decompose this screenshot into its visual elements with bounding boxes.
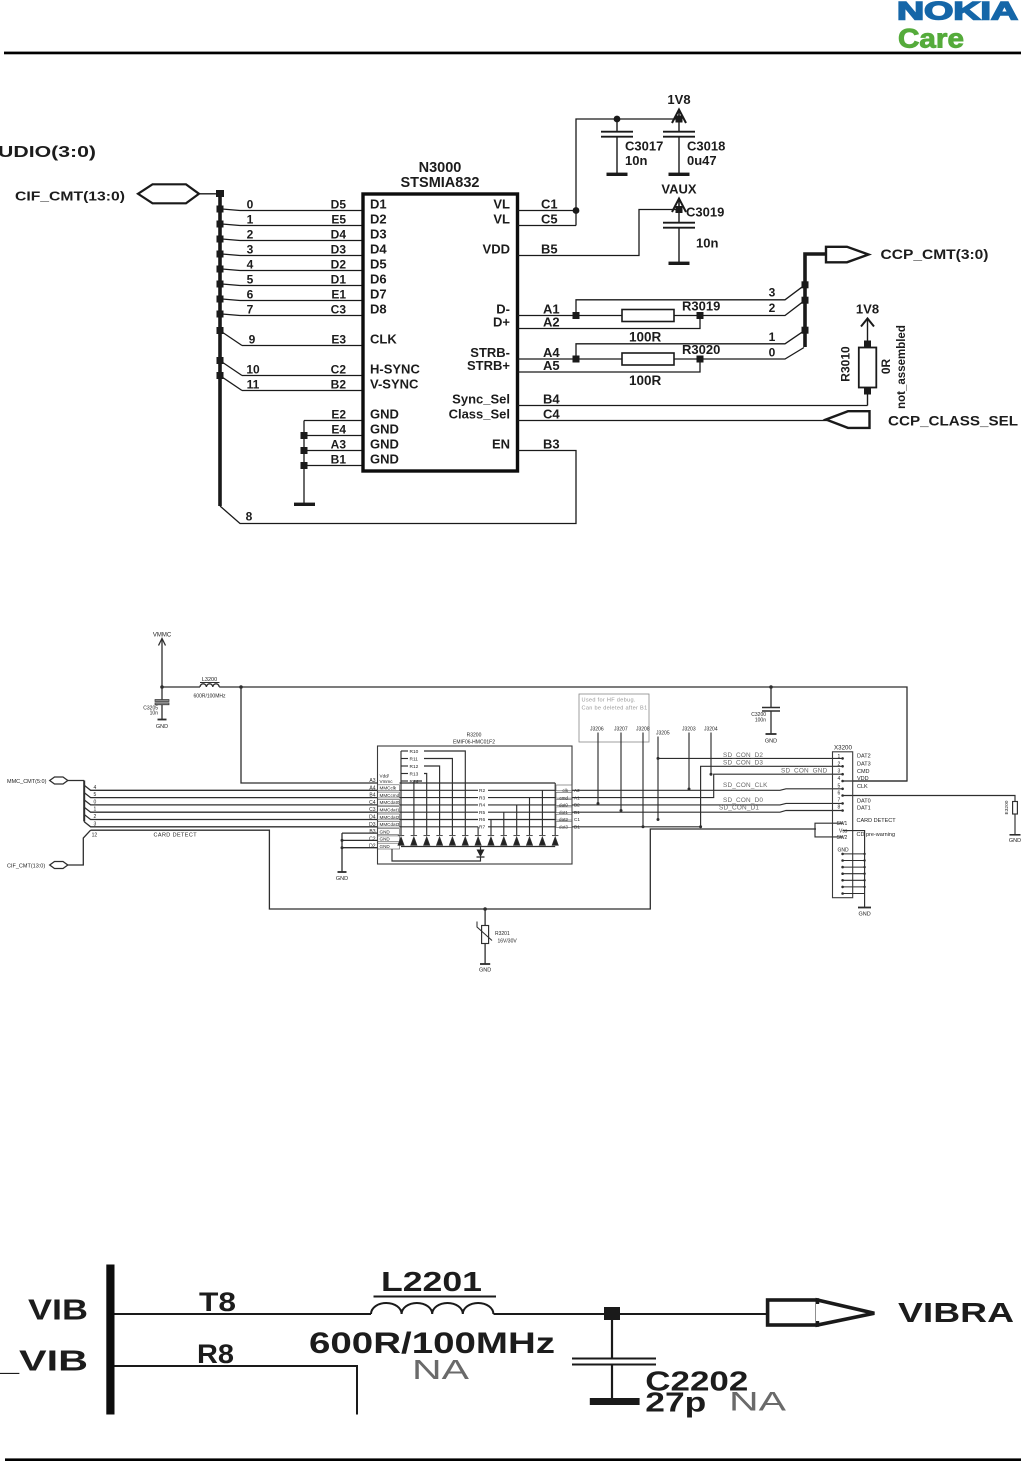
svg-text:8: 8 [246, 510, 253, 524]
node L3200/A3 junction dot [239, 685, 243, 689]
svg-text:CLK: CLK [857, 784, 868, 790]
svg-text:NOKIA: NOKIA [897, 0, 1018, 26]
junction square R3020 right [697, 356, 704, 363]
wire pin4 VDD [843, 780, 907, 782]
wire bus bit3 [576, 285, 805, 316]
svg-text:D3: D3 [370, 227, 387, 242]
wire hexagon to bus [199, 193, 218, 195]
svg-text:D8: D8 [370, 302, 387, 317]
svg-text:R8: R8 [197, 1339, 234, 1369]
svg-text:DAT0: DAT0 [857, 798, 871, 804]
svg-text:0u47: 0u47 [687, 153, 717, 168]
svg-text:6: 6 [838, 791, 841, 797]
svg-text:DAT1: DAT1 [857, 806, 871, 812]
wire pin6 to E3200 [843, 796, 1015, 802]
svg-text:SW1: SW1 [837, 821, 848, 827]
svg-text:CARD DETECT: CARD DETECT [857, 818, 897, 824]
bus top junction [216, 190, 224, 197]
junction squares bits 0-7,9,10,11 on bus [217, 206, 224, 380]
svg-text:C4: C4 [543, 407, 560, 422]
junction squares on GND stub [301, 432, 308, 469]
svg-text:0R: 0R [879, 358, 893, 374]
resistor R3010 (0R not assembled) [839, 325, 909, 409]
svg-text:VIBRA: VIBRA [898, 1297, 1014, 1328]
wire VL C5 to riser [518, 225, 577, 227]
svg-text:0: 0 [247, 198, 254, 212]
capacitor C3200 [751, 685, 780, 744]
wire bit 9 CLK [222, 332, 242, 346]
right BGA pin labels [541, 197, 560, 452]
svg-text:L2201: L2201 [381, 1266, 482, 1297]
svg-text:GND: GND [370, 437, 399, 452]
zener diode to GND rail [392, 847, 485, 862]
svg-text:CARD DETECT: CARD DETECT [154, 833, 198, 839]
svg-text:C3018: C3018 [687, 139, 725, 154]
svg-text:R3200: R3200 [467, 733, 482, 739]
junction square A4 [573, 356, 580, 363]
svg-text:4: 4 [247, 258, 254, 272]
wire bus bit diagonals + horizontals to chip (bits 0-7) [222, 209, 363, 391]
wire SD_CON_GND [572, 774, 843, 797]
wire bus bit1 [576, 330, 805, 359]
wire EN B3 loop to bus bit8 [220, 451, 576, 524]
svg-text:VAUX: VAUX [661, 182, 696, 197]
svg-text:GND: GND [156, 724, 168, 730]
wire hexagon to MMC bus [68, 780, 84, 782]
svg-text:5: 5 [247, 273, 254, 287]
svg-text:R3201: R3201 [495, 931, 510, 937]
svg-text:A4: A4 [369, 785, 375, 791]
svg-text:SD_CON_D2: SD_CON_D2 [723, 752, 763, 759]
svg-text:R3: R3 [479, 795, 485, 801]
svg-text:E3: E3 [331, 333, 346, 347]
svg-text:1: 1 [247, 213, 254, 227]
svg-text:600R/100MHz: 600R/100MHz [194, 694, 226, 700]
wire bus bit2 [700, 300, 805, 315]
svg-text:10n: 10n [696, 236, 718, 251]
svg-text:2: 2 [247, 228, 254, 242]
svg-text:Used for HF debug.: Used for HF debug. [582, 698, 636, 704]
svg-text:Vss: Vss [839, 829, 848, 835]
chip right pin labels [449, 197, 511, 452]
svg-text:R13: R13 [410, 772, 419, 778]
svg-text:VMMC: VMMC [153, 633, 172, 639]
svg-text:1: 1 [769, 330, 776, 344]
wire SD_CON_D3 [572, 766, 843, 827]
inductor L2201 [309, 1266, 555, 1385]
connector CCP_CLASS_SEL input [826, 411, 1018, 428]
svg-text:GND: GND [838, 848, 850, 854]
wire riser to 1V8 rail [576, 119, 679, 226]
svg-text:R2: R2 [479, 788, 485, 794]
chip left pin labels [370, 197, 420, 467]
svg-text:0: 0 [94, 799, 97, 805]
EMIF diode array (13 diodes) [398, 836, 559, 846]
svg-text:B4: B4 [543, 392, 560, 407]
svg-text:CIF_CMT(13:0): CIF_CMT(13:0) [15, 189, 125, 204]
wire STRB+ A5 [518, 359, 701, 372]
svg-text:A3: A3 [369, 778, 375, 784]
svg-text:1: 1 [94, 807, 97, 813]
svg-text:D2: D2 [369, 844, 376, 850]
svg-text:VL: VL [493, 212, 510, 227]
svg-text:R5: R5 [479, 810, 485, 816]
svg-text:5: 5 [94, 792, 97, 798]
wire R8 [115, 1366, 358, 1415]
svg-text:SD_CON_D0: SD_CON_D0 [723, 797, 763, 804]
varistor R3201 [477, 907, 517, 973]
X3200 signal names [857, 753, 871, 811]
svg-text:C3017: C3017 [625, 139, 663, 154]
diode anode bus [401, 846, 555, 848]
svg-text:GND: GND [380, 844, 391, 849]
svg-text:2: 2 [769, 301, 776, 315]
svg-text:STRB+: STRB+ [467, 358, 510, 373]
debug note box [579, 694, 649, 742]
svg-text:STSMIA832: STSMIA832 [401, 175, 480, 191]
EMIF internal R10-R14 ladder [401, 751, 465, 835]
EMIF right pin names [559, 788, 569, 830]
capacitor C2202 [572, 1314, 786, 1418]
GND pin wires E2/E4/A3/B1 [304, 421, 363, 505]
svg-text:27p: 27p [645, 1387, 706, 1418]
svg-text:E3200: E3200 [1004, 800, 1010, 814]
connector X3200 [833, 752, 853, 898]
svg-text:8: 8 [838, 805, 841, 811]
svg-text:VIB: VIB [28, 1295, 88, 1327]
svg-text:H-SYNC: H-SYNC [370, 362, 420, 377]
capacitor C3205 [143, 687, 169, 730]
wire Class_Sel C4 [518, 420, 828, 422]
svg-text:10n: 10n [150, 711, 159, 717]
svg-text:SW2: SW2 [837, 835, 848, 841]
svg-text:J3206: J3206 [590, 727, 604, 733]
svg-text:GND: GND [380, 829, 391, 834]
SD net wires to X3200 [572, 758, 1015, 826]
MMC bus bit labels [94, 785, 97, 828]
svg-text:GND: GND [370, 422, 399, 437]
X3200 pin numbers [838, 754, 841, 811]
wire D+ A2 [518, 316, 701, 329]
svg-text:VDD: VDD [483, 242, 510, 257]
svg-text:CLK: CLK [370, 332, 397, 347]
wire MMC bit 4 (clk) [84, 785, 377, 790]
wire MMC bit 1 (dat1) [84, 807, 377, 812]
svg-text:J3203: J3203 [682, 727, 696, 733]
bus CIF_CMT vertical [218, 192, 222, 506]
svg-text:C1: C1 [574, 817, 580, 822]
svg-text:GND: GND [336, 876, 348, 882]
svg-text:B2: B2 [331, 378, 347, 392]
svg-text:D6: D6 [370, 272, 387, 287]
EMIF GND pins out to left [342, 833, 378, 872]
svg-text:UDIO(3:0): UDIO(3:0) [0, 144, 96, 161]
wire T8 to inductor [115, 1313, 372, 1315]
svg-text:2: 2 [838, 761, 841, 767]
svg-text:6: 6 [247, 288, 254, 302]
junction square R3019 right [697, 312, 704, 319]
svg-text:R7: R7 [479, 825, 485, 831]
svg-text:C2: C2 [331, 363, 347, 377]
svg-text:GND: GND [1009, 838, 1021, 844]
svg-text:100n: 100n [755, 718, 766, 724]
svg-text:D3: D3 [369, 822, 376, 828]
svg-text:3: 3 [769, 286, 776, 300]
header rule [4, 52, 1021, 55]
junction squares on CCP bus [802, 281, 809, 333]
svg-text:GND: GND [765, 739, 777, 745]
svg-text:_VIB: _VIB [0, 1346, 88, 1378]
svg-text:SD_CON_D3: SD_CON_D3 [723, 760, 763, 767]
svg-text:MMCcmd: MMCcmd [380, 793, 400, 798]
svg-text:Sync_Sel: Sync_Sel [452, 392, 510, 407]
resistor R3020 [622, 342, 720, 388]
power VMMC symbol [153, 633, 172, 688]
svg-text:Can be deleted after B1: Can be deleted after B1 [582, 706, 648, 712]
chip R3200 EMIF06-HMC01F2 [378, 746, 573, 864]
svg-text:C4: C4 [369, 800, 376, 806]
svg-text:R11: R11 [410, 757, 419, 763]
svg-text:GND: GND [858, 912, 870, 918]
svg-text:10: 10 [246, 363, 260, 377]
svg-text:R12: R12 [410, 764, 419, 770]
svg-text:GND: GND [380, 837, 391, 842]
svg-text:N3000: N3000 [419, 160, 462, 176]
svg-text:MMCdat0: MMCdat0 [380, 800, 400, 805]
X3200 pin dots [841, 757, 844, 812]
svg-text:VDD: VDD [857, 776, 869, 782]
svg-text:100R: 100R [629, 330, 662, 345]
svg-text:CCP_CMT(3:0): CCP_CMT(3:0) [881, 247, 989, 262]
node VMMC junction dot [160, 685, 164, 689]
svg-text:C5: C5 [541, 212, 558, 227]
svg-text:E1: E1 [331, 288, 346, 302]
wire D- A1 [518, 315, 623, 317]
svg-text:NA: NA [412, 1354, 469, 1385]
svg-text:MMCdat3: MMCdat3 [380, 822, 400, 827]
svg-text:A3: A3 [331, 438, 347, 452]
svg-text:5: 5 [838, 784, 841, 790]
svg-text:D2: D2 [331, 258, 347, 272]
wire Vdd/Vmmc A3 feed [241, 687, 378, 783]
wire SW1-SW2 link [815, 823, 843, 837]
svg-text:E4: E4 [331, 423, 346, 437]
svg-text:V-SYNC: V-SYNC [370, 377, 419, 392]
svg-text:R14: R14 [410, 779, 419, 785]
svg-text:R3019: R3019 [682, 299, 720, 314]
wire VMMC rail [162, 686, 200, 688]
power 1V8 symbol (right) [856, 302, 879, 345]
bus VIB thick bar [106, 1265, 114, 1415]
svg-text:C3: C3 [331, 303, 347, 317]
svg-text:0: 0 [769, 346, 776, 360]
svg-text:9: 9 [249, 333, 256, 347]
wire inductor to VIBRA connector [494, 1313, 769, 1315]
svg-text:3: 3 [247, 243, 254, 257]
bus entry hexagon MMC_CMT [50, 777, 68, 784]
svg-text:D5: D5 [370, 257, 387, 272]
svg-text:A5: A5 [543, 358, 560, 373]
BGA pin name labels left of chip [331, 198, 347, 467]
svg-text:MMCdat1: MMCdat1 [380, 808, 400, 813]
svg-text:CCP_CLASS_SEL: CCP_CLASS_SEL [888, 414, 1018, 429]
svg-text:SD_CON_GND: SD_CON_GND [781, 768, 828, 775]
wire SD_CON_D1 [572, 811, 843, 813]
wire Vss to ground rail [843, 831, 865, 908]
svg-text:X3200: X3200 [834, 745, 852, 752]
EMIF left outside pin ids [369, 778, 376, 850]
capacitor C3017 [601, 119, 663, 176]
svg-text:dat3: dat3 [559, 825, 568, 830]
svg-text:7: 7 [247, 303, 254, 317]
svg-text:C3: C3 [369, 807, 376, 813]
chip N3000 STSMIA832 [363, 194, 518, 471]
svg-text:R10: R10 [410, 749, 419, 755]
bus bit number labels [246, 198, 260, 392]
ground X3200 [858, 907, 871, 909]
svg-text:NA: NA [729, 1387, 786, 1417]
node C3017 junction dot [614, 116, 621, 123]
svg-text:3: 3 [94, 821, 97, 827]
svg-text:GND: GND [479, 968, 491, 974]
svg-text:7: 7 [838, 798, 841, 804]
svg-text:11: 11 [247, 378, 260, 392]
svg-text:B1: B1 [331, 453, 347, 467]
resistor R3019 [622, 299, 720, 345]
wire MMC bit 2 (dat2) [84, 815, 377, 820]
wire SD_CON_D2 [658, 757, 843, 759]
Nokia logo [897, 0, 1018, 54]
svg-text:1: 1 [838, 754, 841, 760]
EMIF left pin names [380, 774, 400, 850]
svg-text:D4: D4 [369, 815, 376, 821]
svg-text:C2: C2 [369, 836, 376, 842]
power VAUX symbol [661, 182, 696, 214]
svg-text:D4: D4 [370, 242, 387, 257]
svg-text:SD_CON_D1: SD_CON_D1 [719, 804, 759, 811]
svg-text:DAT2: DAT2 [857, 753, 871, 759]
svg-text:J3207: J3207 [614, 727, 628, 733]
svg-text:R3010: R3010 [839, 346, 853, 382]
svg-text:D+: D+ [493, 315, 510, 330]
power 1V8 symbol (top) [667, 92, 690, 123]
wire VDD B5 [518, 210, 680, 256]
svg-text:100R: 100R [629, 373, 662, 388]
bus CCP_CMT thick line [805, 254, 826, 347]
svg-text:E5: E5 [331, 213, 346, 227]
connector CCP_CMT(3:0) output [826, 247, 989, 262]
svg-text:B4: B4 [369, 793, 375, 799]
node C2202 junction square [604, 1307, 620, 1320]
EMIF internal row wires [400, 783, 557, 827]
wire STRB- A4 [518, 358, 623, 360]
svg-text:1V8: 1V8 [667, 92, 690, 107]
svg-text:not_assembled: not_assembled [896, 325, 908, 409]
svg-text:C3019: C3019 [686, 205, 724, 220]
EMIF left pin label boxes [378, 785, 400, 849]
wire VL C1 [518, 210, 577, 212]
svg-text:D1: D1 [370, 197, 387, 212]
SW1 / Vss / SW2 [837, 821, 848, 841]
svg-text:R6: R6 [479, 817, 485, 823]
svg-text:4: 4 [94, 785, 97, 791]
svg-text:10n: 10n [625, 153, 647, 168]
svg-text:A2: A2 [543, 315, 560, 330]
svg-text:CIF_CMT(13:0): CIF_CMT(13:0) [7, 864, 45, 870]
wire bit 11 V-SYNC [222, 377, 242, 391]
svg-text:B3: B3 [369, 829, 375, 835]
bus MMC vertical [83, 781, 85, 822]
svg-text:Vdd/: Vdd/ [380, 774, 390, 779]
connector VIBRA output [768, 1297, 1014, 1328]
svg-text:T8: T8 [199, 1287, 236, 1317]
svg-text:D5: D5 [331, 198, 347, 212]
svg-text:Care: Care [898, 24, 964, 54]
svg-text:MMCclk: MMCclk [380, 786, 397, 791]
svg-text:J3204: J3204 [704, 727, 718, 733]
wire MMC bit 5 (cmd) [84, 793, 377, 798]
svg-text:Class_Sel: Class_Sel [449, 407, 510, 422]
junction square A1 [573, 312, 580, 319]
svg-text:CMD: CMD [857, 769, 870, 775]
wire SD_CON_D0 [572, 803, 843, 805]
svg-text:D3: D3 [331, 243, 347, 257]
svg-text:B5: B5 [541, 242, 558, 257]
svg-text:D4: D4 [331, 228, 347, 242]
svg-text:B3: B3 [543, 437, 560, 452]
svg-text:MMC_CMT(5:0): MMC_CMT(5:0) [7, 779, 47, 785]
svg-text:1V8: 1V8 [856, 302, 879, 317]
svg-text:MMCdat2: MMCdat2 [380, 815, 400, 820]
svg-text:R4: R4 [479, 803, 485, 809]
node C1 junction dot [573, 207, 580, 214]
svg-text:C1: C1 [541, 197, 558, 212]
svg-text:EMIF06-HMC01F2: EMIF06-HMC01F2 [453, 740, 495, 746]
svg-text:E2: E2 [331, 408, 346, 422]
svg-text:12: 12 [92, 833, 98, 839]
bus entry hexagon CIF_CMT [50, 862, 68, 869]
svg-text:J3208: J3208 [636, 727, 650, 733]
svg-text:D2: D2 [370, 212, 387, 227]
wire Sync_Sel B4 [518, 405, 868, 407]
svg-text:16V/30V: 16V/30V [498, 939, 518, 945]
svg-text:4: 4 [838, 776, 841, 782]
bus entry hexagon connector [138, 184, 199, 203]
svg-text:DAT3: DAT3 [857, 761, 871, 767]
ground below EMIF GND pins [338, 871, 347, 873]
svg-text:VL: VL [493, 197, 510, 212]
ferrite E3200 [1004, 800, 1021, 844]
ground bar below GND pins [294, 503, 315, 506]
svg-text:2: 2 [94, 814, 97, 820]
wire SD_CON_CLK [572, 789, 843, 791]
svg-text:GND: GND [370, 452, 399, 467]
wire MMC bit 0 (dat0) [84, 800, 377, 805]
capacitor C3019 [663, 205, 724, 266]
wire bus bit0 [700, 348, 804, 360]
diode verticals right group [478, 783, 555, 835]
wire VMMC rail right [219, 687, 907, 781]
svg-text:SD_CON_CLK: SD_CON_CLK [723, 782, 768, 789]
footer rule [5, 1458, 1021, 1461]
bus bit labels 3,2,1,0 [769, 286, 776, 360]
net CARD DETECT wire [91, 829, 816, 909]
EMIF internal R2-R7 series labels [479, 788, 485, 831]
inductor L3200 [194, 677, 226, 700]
SD net labels [719, 752, 828, 812]
svg-text:GND: GND [370, 407, 399, 422]
wire MMC bit 3 (dat3) [84, 822, 377, 827]
